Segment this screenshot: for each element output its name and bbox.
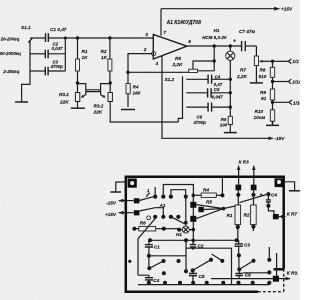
svg-text:C4: C4 [215, 74, 221, 79]
resistor R4 [126, 72, 141, 107]
via hole [147, 216, 151, 220]
board outline [126, 177, 284, 292]
+15V rail [161, 6, 293, 11]
ground (board top-left) [111, 182, 127, 192]
node R3.1 top [76, 81, 79, 84]
ground (R7) [250, 82, 263, 84]
inverting input bubble [152, 52, 156, 56]
capacitor C1 (board) [145, 240, 160, 257]
pad К R3 right [251, 185, 257, 191]
svg-text:10ом: 10ом [254, 115, 266, 120]
svg-text:0,047: 0,047 [212, 94, 224, 99]
svg-text:R3.1: R3.1 [59, 92, 69, 97]
solder pad P2 [190, 216, 196, 222]
svg-text:2,2K: 2,2K [236, 74, 248, 79]
node R3.2 top [109, 81, 112, 84]
svg-text:R8: R8 [260, 68, 266, 73]
capacitor C3 [45, 60, 63, 76]
svg-text:1/100: 1/100 [293, 100, 300, 105]
svg-text:R1: R1 [82, 49, 88, 54]
-15V input [106, 198, 139, 205]
mounting pad top-left [128, 179, 137, 188]
capacitor C5 [208, 87, 231, 99]
trace C6 right [243, 272, 269, 274]
resistor R2 [101, 38, 112, 83]
wire node to R5 [128, 71, 189, 73]
lamp H1 (board) [176, 197, 193, 237]
ground (S1.1 common) [15, 101, 28, 103]
svg-text:2,2K: 2,2K [172, 62, 184, 67]
trace stub left [149, 255, 186, 257]
svg-text:R10: R10 [255, 109, 264, 114]
potentiometer R7 [236, 46, 273, 82]
svg-text:S1.1: S1.1 [21, 25, 31, 30]
svg-text:160: 160 [133, 91, 141, 96]
svg-text:R1: R1 [227, 213, 233, 218]
jumper under R6 [138, 219, 155, 239]
node R1 top [76, 36, 79, 39]
resistor R10 [254, 109, 275, 124]
svg-text:К R7: К R7 [287, 211, 298, 216]
svg-text:2-20кгц: 2-20кгц [2, 69, 19, 74]
svg-text:20-200гц: 20-200гц [0, 36, 20, 41]
svg-text:C4: C4 [153, 278, 159, 283]
svg-text:3: 3 [145, 32, 148, 37]
fan traces to R1 [196, 205, 235, 219]
К R3. output (bottom right) [211, 271, 298, 282]
wire pin 2 [128, 54, 152, 73]
svg-text:C1 0,47: C1 0,47 [50, 27, 67, 32]
svg-text:C6: C6 [197, 115, 203, 120]
svg-text:R9: R9 [260, 90, 266, 95]
left vertical trace [137, 239, 139, 276]
svg-text:22K: 22K [93, 110, 103, 115]
svg-text:К R3.: К R3. [287, 271, 298, 276]
capacitor C6 [193, 103, 231, 125]
mechanical link R3.1-R3.2 [86, 90, 101, 92]
output tap 1/1 [271, 59, 299, 64]
svg-text:1K: 1K [101, 55, 108, 60]
ground (R3.1) [71, 102, 85, 109]
svg-text:C5: C5 [199, 274, 205, 279]
svg-text:R6: R6 [140, 221, 146, 226]
svg-text:R2: R2 [244, 213, 250, 218]
svg-text:R4: R4 [203, 187, 209, 192]
wire row2 to C2 [30, 53, 45, 55]
svg-text:C1: C1 [154, 244, 160, 249]
solder pad P1 [190, 202, 196, 208]
svg-text:H1: H1 [214, 28, 220, 33]
potentiometer R5 [172, 46, 215, 73]
trace IC pin to H1 column [171, 217, 186, 225]
potentiometer R3.2 [93, 83, 113, 115]
svg-text:-15V: -15V [106, 200, 117, 205]
ground (R6) [224, 132, 237, 134]
wire S1.2 row2 [186, 92, 207, 94]
svg-text:C7 47м: C7 47м [239, 29, 256, 34]
lead dots below pads [236, 193, 240, 197]
svg-text:+15V: +15V [281, 6, 293, 11]
vertical bus trace [192, 195, 194, 240]
svg-text:К R3: К R3 [239, 160, 250, 165]
jumper D4 [212, 254, 223, 261]
trace -15V pad to pin 1 [139, 197, 155, 201]
trace IC pin to R4 right [163, 185, 193, 197]
svg-text:C3: C3 [244, 243, 250, 248]
К R7 output [273, 211, 297, 219]
svg-text:4700p: 4700p [50, 64, 64, 69]
svg-text:НСМ 6,3-20: НСМ 6,3-20 [202, 35, 227, 40]
svg-text:S1.2: S1.2 [165, 77, 175, 82]
wire pin 4 to -15V rail [162, 56, 269, 138]
bottom trace with pads [128, 260, 271, 285]
capacitor C7 [233, 29, 256, 51]
wire row3 to C3 [30, 70, 45, 72]
svg-text:91: 91 [261, 96, 267, 101]
switch S1.1 common wire and wiper tick [22, 38, 33, 101]
jumper D1 [147, 256, 165, 270]
wire S1.2 row3 [186, 106, 208, 108]
resistor R1 (board) [227, 205, 241, 240]
К R3 leads (top) [237, 160, 256, 187]
right verticals [268, 247, 270, 260]
capacitor C4 electrolytic (board) [260, 192, 278, 214]
node pin2/R4/R5 [126, 71, 129, 74]
junction dots C4 C5 C6 [229, 78, 232, 81]
trace +15V pad to IC [139, 208, 163, 217]
svg-text:R2: R2 [101, 49, 107, 54]
output wire pin 6 [187, 45, 242, 47]
wire S1.2 row1 [186, 78, 208, 80]
svg-text:R7: R7 [240, 68, 246, 73]
capacitor C5 (board bottom) [189, 270, 205, 284]
wire vertical joining C2 C3 to node [64, 38, 66, 71]
svg-text:200-2000гц: 200-2000гц [0, 51, 21, 56]
capacitor C3 (board) [235, 240, 251, 271]
trace to right with drop [186, 248, 232, 284]
resistor R2 (board) [244, 205, 257, 231]
resistor R9 [260, 89, 275, 110]
output tap 1/10 [271, 79, 302, 84]
wire capacitor common node to pin 3 [48, 37, 153, 39]
svg-text:22K: 22K [59, 100, 69, 105]
svg-text:R4: R4 [133, 85, 139, 90]
node R2 top [108, 36, 111, 39]
pad К R3 left [236, 185, 242, 191]
ground (board top-right) [284, 182, 300, 191]
capacitor C1 [46, 27, 67, 42]
svg-text:100: 100 [220, 122, 228, 127]
vertical bus trace middle [185, 240, 187, 271]
resistor R6 (board) [132, 221, 179, 231]
wire R3.2 bottom to S1.2 common [110, 102, 178, 123]
svg-text:C4: C4 [271, 193, 277, 198]
resistor R6 [220, 116, 233, 132]
wire C2 right to node [48, 53, 65, 55]
main horizontal trace [150, 239, 239, 241]
jumper D2 [191, 258, 213, 273]
ground (R10) [266, 121, 279, 125]
mounting pad top-right [275, 178, 284, 187]
svg-text:6: 6 [188, 39, 191, 44]
svg-text:R3.2: R3.2 [94, 104, 104, 109]
svg-text:-15V: -15V [275, 136, 286, 141]
trace IC pin to vertical bus [171, 190, 186, 197]
pin 1 marker [146, 187, 155, 197]
-15V arrow [269, 136, 286, 141]
svg-text:7: 7 [164, 30, 167, 35]
capacitor C4 (board bottom) [138, 275, 160, 284]
capacitor C2 [45, 42, 63, 59]
svg-text:0,047: 0,047 [52, 46, 64, 51]
switch S1.2 [165, 76, 183, 122]
node dot [64, 37, 67, 40]
IC A1 pads [153, 195, 188, 219]
svg-text:1/10: 1/10 [292, 79, 300, 84]
svg-text:4: 4 [155, 61, 159, 66]
solder pad P1b [198, 207, 203, 212]
trace to C4 [240, 195, 267, 203]
wire C3 right to node [48, 70, 65, 72]
svg-text:A1 К140УД708: A1 К140УД708 [166, 20, 202, 26]
op-amp A1 [143, 20, 201, 66]
svg-text:A1: A1 [159, 203, 166, 208]
svg-text:910: 910 [259, 74, 267, 79]
resistor R4 (board) [193, 187, 224, 197]
wire row1 to C1 [30, 37, 45, 39]
jumper D3 [239, 259, 255, 270]
ground (R4) [121, 109, 135, 111]
svg-text:R5: R5 [206, 199, 212, 204]
capacitor C4 [208, 74, 230, 86]
wire pin 7 [160, 9, 162, 36]
resistor R1 [76, 38, 89, 83]
svg-text:R5: R5 [175, 56, 181, 61]
svg-text:+15V: +15V [105, 212, 117, 217]
capacitor C2 (board) [190, 240, 204, 250]
svg-text:2: 2 [143, 47, 147, 52]
+15V input [105, 210, 139, 217]
svg-text:H1: H1 [176, 232, 182, 237]
svg-text:C5: C5 [214, 87, 220, 92]
resistor R8 [259, 61, 275, 89]
lamp H1 [202, 28, 235, 116]
potentiometer R3.1 [59, 83, 86, 105]
svg-text:4700p: 4700p [193, 120, 207, 125]
output tap 1/100 [271, 100, 305, 105]
svg-text:1/1: 1/1 [292, 59, 299, 64]
svg-text:+: + [233, 39, 236, 45]
capacitor C6 (board bottom) [235, 269, 251, 278]
svg-text:1K: 1K [82, 55, 89, 60]
